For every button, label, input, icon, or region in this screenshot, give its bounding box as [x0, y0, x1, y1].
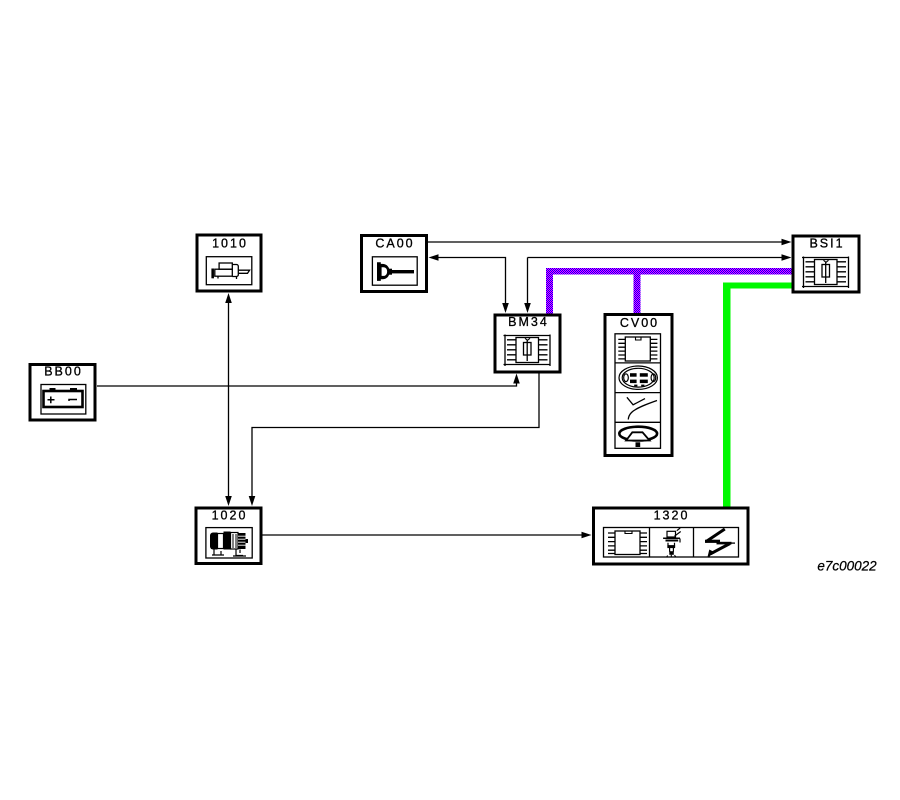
svg-text:CV00: CV00 — [620, 316, 659, 330]
svg-text:BB00: BB00 — [44, 365, 83, 379]
svg-text:BM34: BM34 — [508, 315, 549, 329]
svg-text:CA00: CA00 — [375, 237, 414, 251]
svg-text:1320: 1320 — [654, 509, 690, 523]
svg-text:BSI1: BSI1 — [809, 237, 844, 251]
svg-text:1020: 1020 — [212, 509, 248, 523]
svg-text:e7c00022: e7c00022 — [817, 559, 877, 574]
svg-text:1010: 1010 — [212, 237, 248, 251]
